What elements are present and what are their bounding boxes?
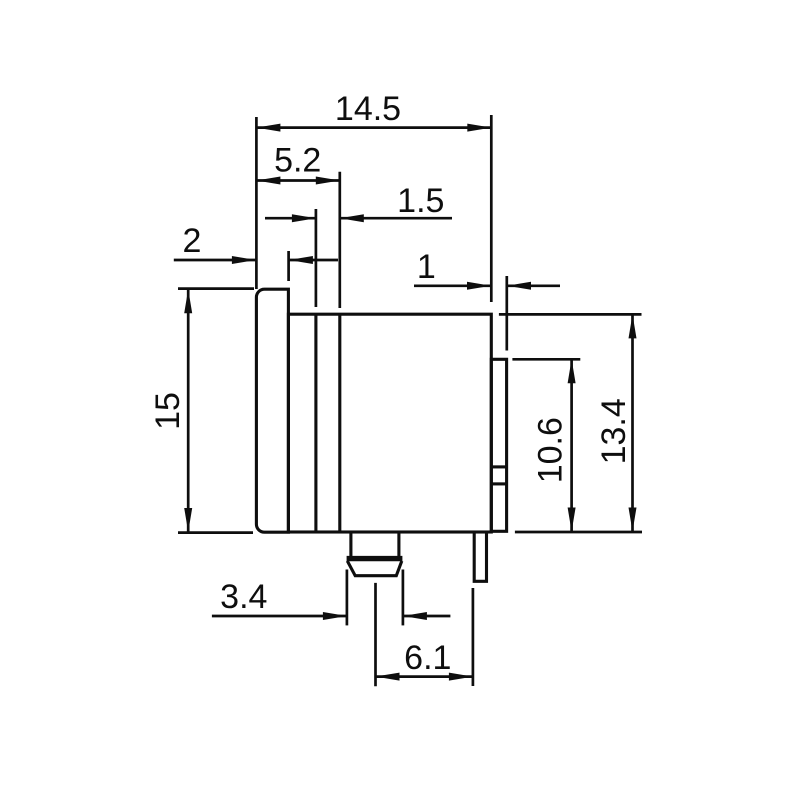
svg-text:6.1: 6.1	[404, 639, 451, 677]
svg-text:10.6: 10.6	[532, 417, 570, 483]
svg-text:3.4: 3.4	[220, 578, 267, 616]
svg-text:5.2: 5.2	[274, 141, 321, 179]
svg-text:15: 15	[149, 392, 187, 430]
svg-text:1: 1	[417, 248, 436, 286]
svg-text:13.4: 13.4	[595, 398, 633, 464]
svg-text:2: 2	[182, 222, 201, 260]
svg-text:1.5: 1.5	[397, 182, 444, 220]
svg-text:14.5: 14.5	[335, 90, 401, 128]
